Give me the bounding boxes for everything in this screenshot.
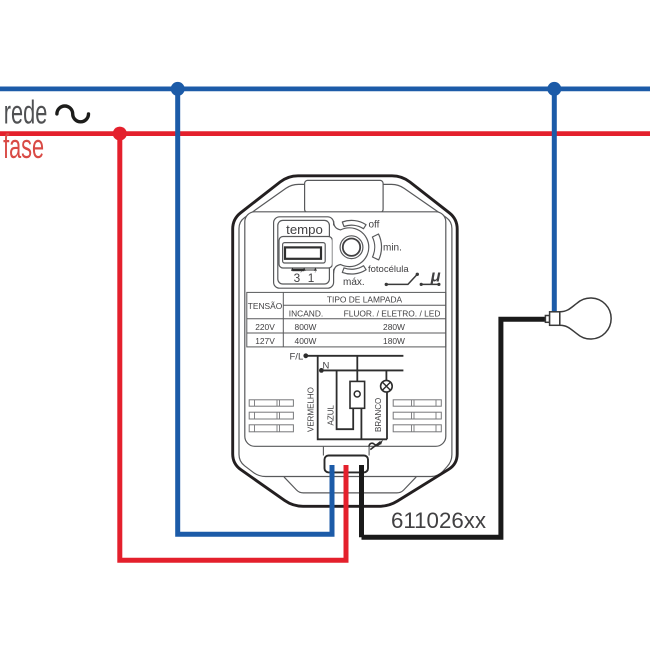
svg-text:VERMELHO: VERMELHO [307,387,316,432]
svg-text:máx.: máx. [343,277,365,288]
svg-text:400W: 400W [295,336,317,346]
svg-text:N: N [323,360,330,371]
svg-text:280W: 280W [383,322,405,332]
svg-text:611026xx: 611026xx [391,508,486,533]
svg-text:FLUOR. / ELETRO. / LED: FLUOR. / ELETRO. / LED [344,308,441,318]
svg-text:BRANCO: BRANCO [374,398,383,432]
svg-text:180W: 180W [383,336,405,346]
svg-text:fotocélula: fotocélula [368,264,409,275]
svg-text:TIPO DE LAMPADA: TIPO DE LAMPADA [327,294,403,304]
svg-text:fase: fase [3,128,44,166]
svg-text:μ: μ [430,268,441,286]
svg-text:127V: 127V [255,336,275,346]
svg-text:TENSÃO: TENSÃO [248,301,283,311]
svg-text:AZUL: AZUL [327,405,336,426]
svg-text:800W: 800W [295,322,317,332]
svg-text:off: off [369,220,380,231]
svg-text:min.: min. [383,243,402,254]
svg-text:220V: 220V [255,322,275,332]
svg-text:INCAND.: INCAND. [289,308,323,318]
svg-text:tempo: tempo [286,222,323,237]
svg-text:F/L: F/L [290,351,304,362]
svg-text:rede: rede [4,95,47,132]
